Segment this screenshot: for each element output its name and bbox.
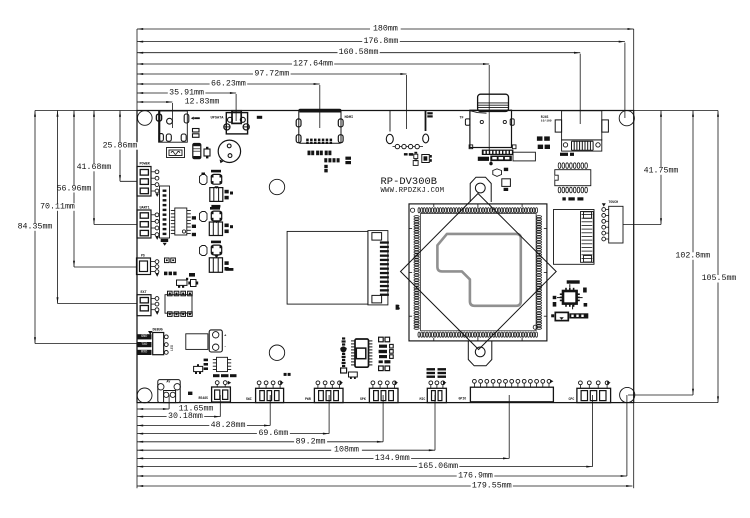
- transistor Q1: [204, 149, 210, 156]
- svg-text:TXD: TXD: [141, 343, 147, 347]
- LCD FPC connector J20: [554, 210, 595, 265]
- dimension 48.28mm (bottom): [137, 425, 270, 427]
- extension line GPIO header to dimension: [508, 395, 510, 458]
- capacitor C12 with polarity: [209, 330, 222, 352]
- extension line RS485 header to dimension: [219, 395, 221, 417]
- extension line left edge up: [136, 29, 138, 111]
- extension line 66.23mm to HDMI: [319, 85, 321, 128]
- resistor R9: [188, 392, 192, 395]
- svg-text:WWW.RPDZKJ.COM: WWW.RPDZKJ.COM: [381, 187, 445, 195]
- extension line top edge left: [35, 110, 137, 112]
- labels right of U7: [583, 288, 587, 293]
- CPU edge tick marks: [409, 204, 547, 341]
- dimension 84.35mm (left): [34, 111, 36, 344]
- label row under U6: [562, 197, 565, 200]
- dimension 108mm (bottom): [137, 449, 435, 451]
- svg-text:TF: TF: [460, 117, 464, 121]
- audio codec U8: [355, 339, 369, 367]
- svg-text:10/100: 10/100: [541, 119, 552, 123]
- dimension 41.75mm (right): [660, 111, 662, 225]
- dimension 11.65mm (bottom): [137, 408, 169, 410]
- dimension 179.55mm (bottom): [137, 485, 632, 487]
- extension line CPC header to dimension: [592, 395, 594, 467]
- resistor labels column: [204, 359, 208, 362]
- DIP-8 IC U4: [165, 295, 192, 314]
- extension line 160.58mm to RJ45: [579, 54, 581, 124]
- CPU inner boundary: [421, 214, 537, 331]
- extension line TOUCH to 41.75mm: [623, 224, 661, 226]
- svg-text:-: -: [224, 345, 226, 349]
- ANT wire stub left: [389, 111, 391, 132]
- svg-text:30.18mm: 30.18mm: [168, 412, 203, 421]
- dimension 35.91mm (top): [137, 92, 236, 94]
- small parts right of PS2: [165, 258, 170, 263]
- diamond placement outline: [401, 194, 557, 350]
- svg-text:GPIO: GPIO: [459, 396, 467, 400]
- dimension 105.5mm (right): [717, 111, 719, 403]
- resistor row: [164, 272, 167, 276]
- ANT wire row: [393, 146, 424, 148]
- ANT pad left: [386, 134, 393, 143]
- DC power jack J1: [159, 111, 188, 142]
- ANT small parts: [404, 153, 408, 155]
- svg-text:12.83mm: 12.83mm: [185, 98, 220, 107]
- CPU U1 package: [409, 204, 547, 341]
- CPU corner pin1 circle: [411, 208, 415, 212]
- HDMI connector J3: [299, 109, 341, 143]
- svg-text:105.5mm: 105.5mm: [702, 274, 737, 283]
- DC-DC group 3: [200, 246, 208, 256]
- dimension 69.6mm (bottom): [137, 433, 329, 435]
- dimension 97.72mm (top): [137, 73, 407, 75]
- svg-text:GND: GND: [141, 335, 147, 339]
- extension line 176.8mm to top-right hole: [624, 43, 626, 118]
- extension line right edge up: [633, 29, 635, 111]
- extension line for 41.68mm: [94, 224, 137, 226]
- svg-text:165.06mm: 165.06mm: [418, 462, 458, 471]
- svg-text:89.2mm: 89.2mm: [296, 437, 326, 446]
- extension line for 56.96mm: [74, 266, 137, 268]
- svg-text:SPK: SPK: [360, 397, 366, 401]
- crystal X1: [191, 280, 197, 287]
- extension line 35.91mm to USB jack: [235, 94, 237, 121]
- small parts under TF: [489, 162, 492, 165]
- svg-text:160.58mm: 160.58mm: [339, 48, 379, 57]
- CPU pin ring: [414, 208, 542, 338]
- dimension 165.06mm (bottom): [137, 466, 593, 468]
- label above U7: [567, 280, 580, 283]
- fuse F1: [167, 148, 185, 158]
- capacitor C2 electrolytic: [193, 144, 201, 159]
- extension line AV jack to dimension: [168, 395, 170, 409]
- IC U3 with pins: [175, 208, 187, 235]
- svg-text:48.28mm: 48.28mm: [211, 421, 246, 430]
- mid hole lower: [269, 345, 284, 360]
- mid hole upper: [269, 179, 284, 194]
- svg-text:25.86mm: 25.86mm: [103, 141, 138, 150]
- svg-text:127.64mm: 127.64mm: [293, 60, 333, 69]
- svg-text:69.6mm: 69.6mm: [258, 429, 288, 438]
- dimension 127.64mm (top): [137, 63, 489, 65]
- dimension 160.58mm (top): [137, 52, 580, 54]
- dimension 30.18mm (bottom): [137, 416, 220, 418]
- extension line right edge down: [633, 403, 635, 489]
- svg-text:RXD: RXD: [141, 351, 147, 355]
- svg-text:56.96mm: 56.96mm: [57, 184, 92, 193]
- dimension 176.8mm (top): [137, 41, 625, 43]
- svg-text:180mm: 180mm: [373, 25, 398, 34]
- resistor R3: [345, 157, 351, 160]
- IC U2 vertical: [160, 186, 170, 238]
- mounting hole bottom-left: [137, 388, 152, 403]
- board outline: [137, 111, 634, 403]
- dimension 176.9mm (bottom): [137, 475, 627, 477]
- USB/eSATA jack J2: [226, 113, 247, 134]
- dimension 134.9mm (bottom): [137, 457, 509, 459]
- extension line for 70.11mm: [58, 303, 138, 305]
- svg-text:SWI: SWI: [246, 397, 252, 401]
- RJ45 jack J5: [562, 111, 602, 140]
- mounting hole top-right: [619, 111, 634, 126]
- svg-text:66.23mm: 66.23mm: [211, 80, 246, 89]
- svg-text:PS: PS: [141, 254, 145, 258]
- label B: [396, 305, 400, 310]
- inductor column left of codec: [342, 337, 345, 339]
- transformer T1: [186, 334, 208, 350]
- label row under U5: [213, 374, 220, 377]
- transistor Q4: [194, 366, 203, 371]
- extension line top edge right: [634, 110, 718, 112]
- svg-text:179.55mm: 179.55mm: [472, 482, 512, 491]
- dimension 102.8mm (right): [692, 111, 694, 396]
- svg-text:102.8mm: 102.8mm: [675, 252, 710, 261]
- top tab with hole: [470, 177, 491, 202]
- ANT bracket part: [422, 155, 430, 163]
- dimension 70.11mm (left): [57, 111, 59, 304]
- extension line bottom-right hole to 102.8mm: [628, 394, 693, 396]
- mSATA socket J19: [287, 231, 368, 304]
- svg-text:41.75mm: 41.75mm: [644, 167, 679, 176]
- svg-text:DEBUG: DEBUG: [153, 329, 163, 333]
- extension line bottom-right hole to dimension: [626, 395, 628, 476]
- capacitor row C5-C7 under HDMI: [308, 151, 311, 156]
- extension line 127.64mm to TF slot: [488, 65, 490, 150]
- label column above MIC: [427, 368, 436, 370]
- extension line PWR header to dimension: [328, 395, 330, 434]
- capacitor C1 pair: [193, 129, 200, 133]
- label DC-12V: [191, 117, 194, 120]
- TF card slot J4: [478, 94, 509, 111]
- capacitor C9: [324, 165, 327, 168]
- svg-text:LED: LED: [171, 345, 175, 351]
- extension line bottom edge right: [634, 402, 718, 404]
- svg-text:84.35mm: 84.35mm: [18, 223, 53, 232]
- extension line for 84.35mm: [35, 343, 137, 345]
- mounting hole top-left: [138, 111, 153, 126]
- dimension 180mm (top): [137, 28, 634, 30]
- capacitor bank right of codec: [379, 337, 384, 342]
- labels left of U7: [553, 296, 557, 299]
- svg-text:134.9mm: 134.9mm: [375, 454, 410, 463]
- svg-text:RS485: RS485: [199, 396, 209, 400]
- dimension 56.96mm (left): [73, 111, 75, 268]
- extension line for 25.86mm: [120, 180, 137, 182]
- dimension 12.83mm (top): [137, 101, 172, 103]
- svg-text:176.8mm: 176.8mm: [363, 37, 398, 46]
- extension line 12.83mm to DC jack: [171, 103, 173, 128]
- extension line left edge down: [136, 403, 138, 489]
- svg-text:TOUCH: TOUCH: [609, 200, 619, 204]
- DC-DC group 1: [200, 175, 208, 185]
- buzzer BZ1: [218, 140, 240, 162]
- extension line SPK header to dimension: [382, 395, 384, 442]
- ANT stub and pad: [425, 111, 427, 132]
- transistor Q3: [177, 280, 188, 285]
- svg-text:HDMI: HDMI: [345, 116, 354, 120]
- label row above U6: [560, 153, 568, 156]
- SOIC-8 U5: [217, 357, 228, 371]
- LVDS QFN U7: [563, 291, 577, 304]
- label row under U7: [555, 312, 568, 320]
- bottom tab with hole: [468, 341, 492, 366]
- DC-DC group 2: [200, 212, 208, 222]
- extension line MIC header to dimension: [434, 395, 436, 450]
- label OO: [284, 373, 287, 376]
- mounting hole bottom-right: [620, 387, 635, 402]
- svg-text:35.91mm: 35.91mm: [169, 89, 204, 98]
- svg-text:CPC: CPC: [569, 397, 575, 401]
- svg-text:108mm: 108mm: [334, 446, 359, 455]
- transistor Q5: [349, 372, 358, 377]
- svg-text:MIC: MIC: [420, 397, 426, 401]
- capacitor row C8: [324, 158, 327, 162]
- svg-text:176.9mm: 176.9mm: [458, 472, 493, 481]
- capacitor pair left of RJ45: [537, 136, 543, 140]
- svg-text:RJ45: RJ45: [541, 115, 549, 119]
- svg-text:41.68mm: 41.68mm: [77, 163, 112, 172]
- resistors R5-R7: [192, 216, 196, 219]
- svg-text:POWER: POWER: [140, 163, 151, 167]
- SIM holder strip: [478, 157, 489, 161]
- dimension 41.68mm (left): [93, 111, 95, 225]
- extension line SWI header to dimension: [269, 395, 271, 426]
- CPU heatsink outline gray: [437, 234, 520, 306]
- dimension 25.86mm (left): [119, 111, 121, 182]
- extension line 97.72mm to ANT hole: [406, 75, 408, 129]
- dimension 66.23mm (top): [137, 83, 320, 85]
- label CD: [257, 116, 262, 119]
- svg-text:97.72mm: 97.72mm: [254, 70, 289, 79]
- label ANT USB: [427, 112, 432, 114]
- dimension 89.2mm (bottom): [137, 441, 383, 443]
- svg-text:RP-DV300B: RP-DV300B: [381, 176, 438, 188]
- svg-text:PWR: PWR: [305, 397, 311, 401]
- SOIC-16 U6: [555, 170, 591, 186]
- svg-text:UPSATA: UPSATA: [211, 117, 225, 121]
- svg-text:70.11mm: 70.11mm: [40, 203, 75, 212]
